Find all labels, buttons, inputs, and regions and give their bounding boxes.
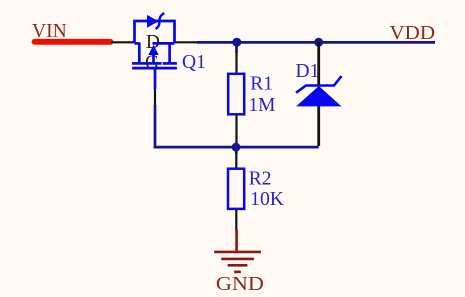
diode D1 (zener) [296, 42, 341, 146]
svg-text:R1: R1 [250, 74, 273, 95]
transistor Q1 [111, 13, 197, 106]
pin top (black) [235, 152, 237, 168]
wire Q1 gate down [154, 105, 157, 148]
wire junction to R2 [235, 147, 238, 154]
resistor R2 [228, 152, 244, 231]
pin (gate, bottom, black) [154, 86, 156, 106]
gate stub [154, 68, 157, 89]
junction (D1 top) [314, 38, 323, 47]
svg-text:GND: GND [216, 274, 264, 295]
pin top (black) [317, 42, 320, 86]
pin (source, right, black) [176, 41, 198, 43]
contact bar middle [147, 62, 161, 65]
wire VIN thick red [35, 39, 111, 45]
contact bar left [132, 62, 146, 65]
ground symbol [214, 230, 261, 272]
left jog [135, 42, 140, 45]
wire bottom horizontal [154, 146, 319, 149]
contact bar right [163, 62, 177, 65]
anode triangle (points up) [296, 86, 341, 106]
ground bar 2 [221, 258, 254, 261]
resistor R1 [228, 51, 244, 143]
pin bottom (black) [317, 106, 320, 146]
ground stub [235, 230, 238, 252]
junction (bottom node) [232, 143, 241, 152]
body diode curved cathode [156, 13, 165, 29]
wire Q1 source to VDD [197, 41, 435, 44]
body arrow head (points up) [148, 45, 158, 55]
svg-text:1M: 1M [248, 95, 275, 116]
body diode loop [135, 21, 175, 43]
svg-text:Q1: Q1 [182, 52, 206, 73]
channel stub left [138, 43, 141, 63]
svg-text:D1: D1 [296, 61, 320, 82]
svg-text:R2: R2 [249, 168, 272, 189]
cathode bar with zener bends [296, 76, 341, 93]
svg-text:10K: 10K [250, 189, 284, 210]
pin bottom (black) [235, 115, 237, 143]
junction (R1 top) [232, 38, 241, 47]
body arrow tail [152, 54, 155, 63]
body graphics (blue) [132, 21, 177, 89]
channel stub right [168, 43, 171, 63]
svg-text:VDD: VDD [390, 23, 436, 44]
body rectangle [228, 169, 244, 209]
gate plate [132, 67, 177, 70]
pin bottom (black) [235, 209, 237, 231]
wire junction to R1 [235, 42, 238, 53]
svg-text:VIN: VIN [32, 21, 67, 42]
internal source connection [153, 42, 175, 45]
ground bar 3 [228, 264, 248, 267]
ground bar 4 [234, 271, 241, 274]
body diode triangle [147, 15, 159, 28]
pin (drain, left, black) [111, 41, 136, 43]
pin top (black) [235, 51, 237, 73]
body rectangle [228, 74, 244, 115]
ground bar 1 [214, 251, 261, 254]
